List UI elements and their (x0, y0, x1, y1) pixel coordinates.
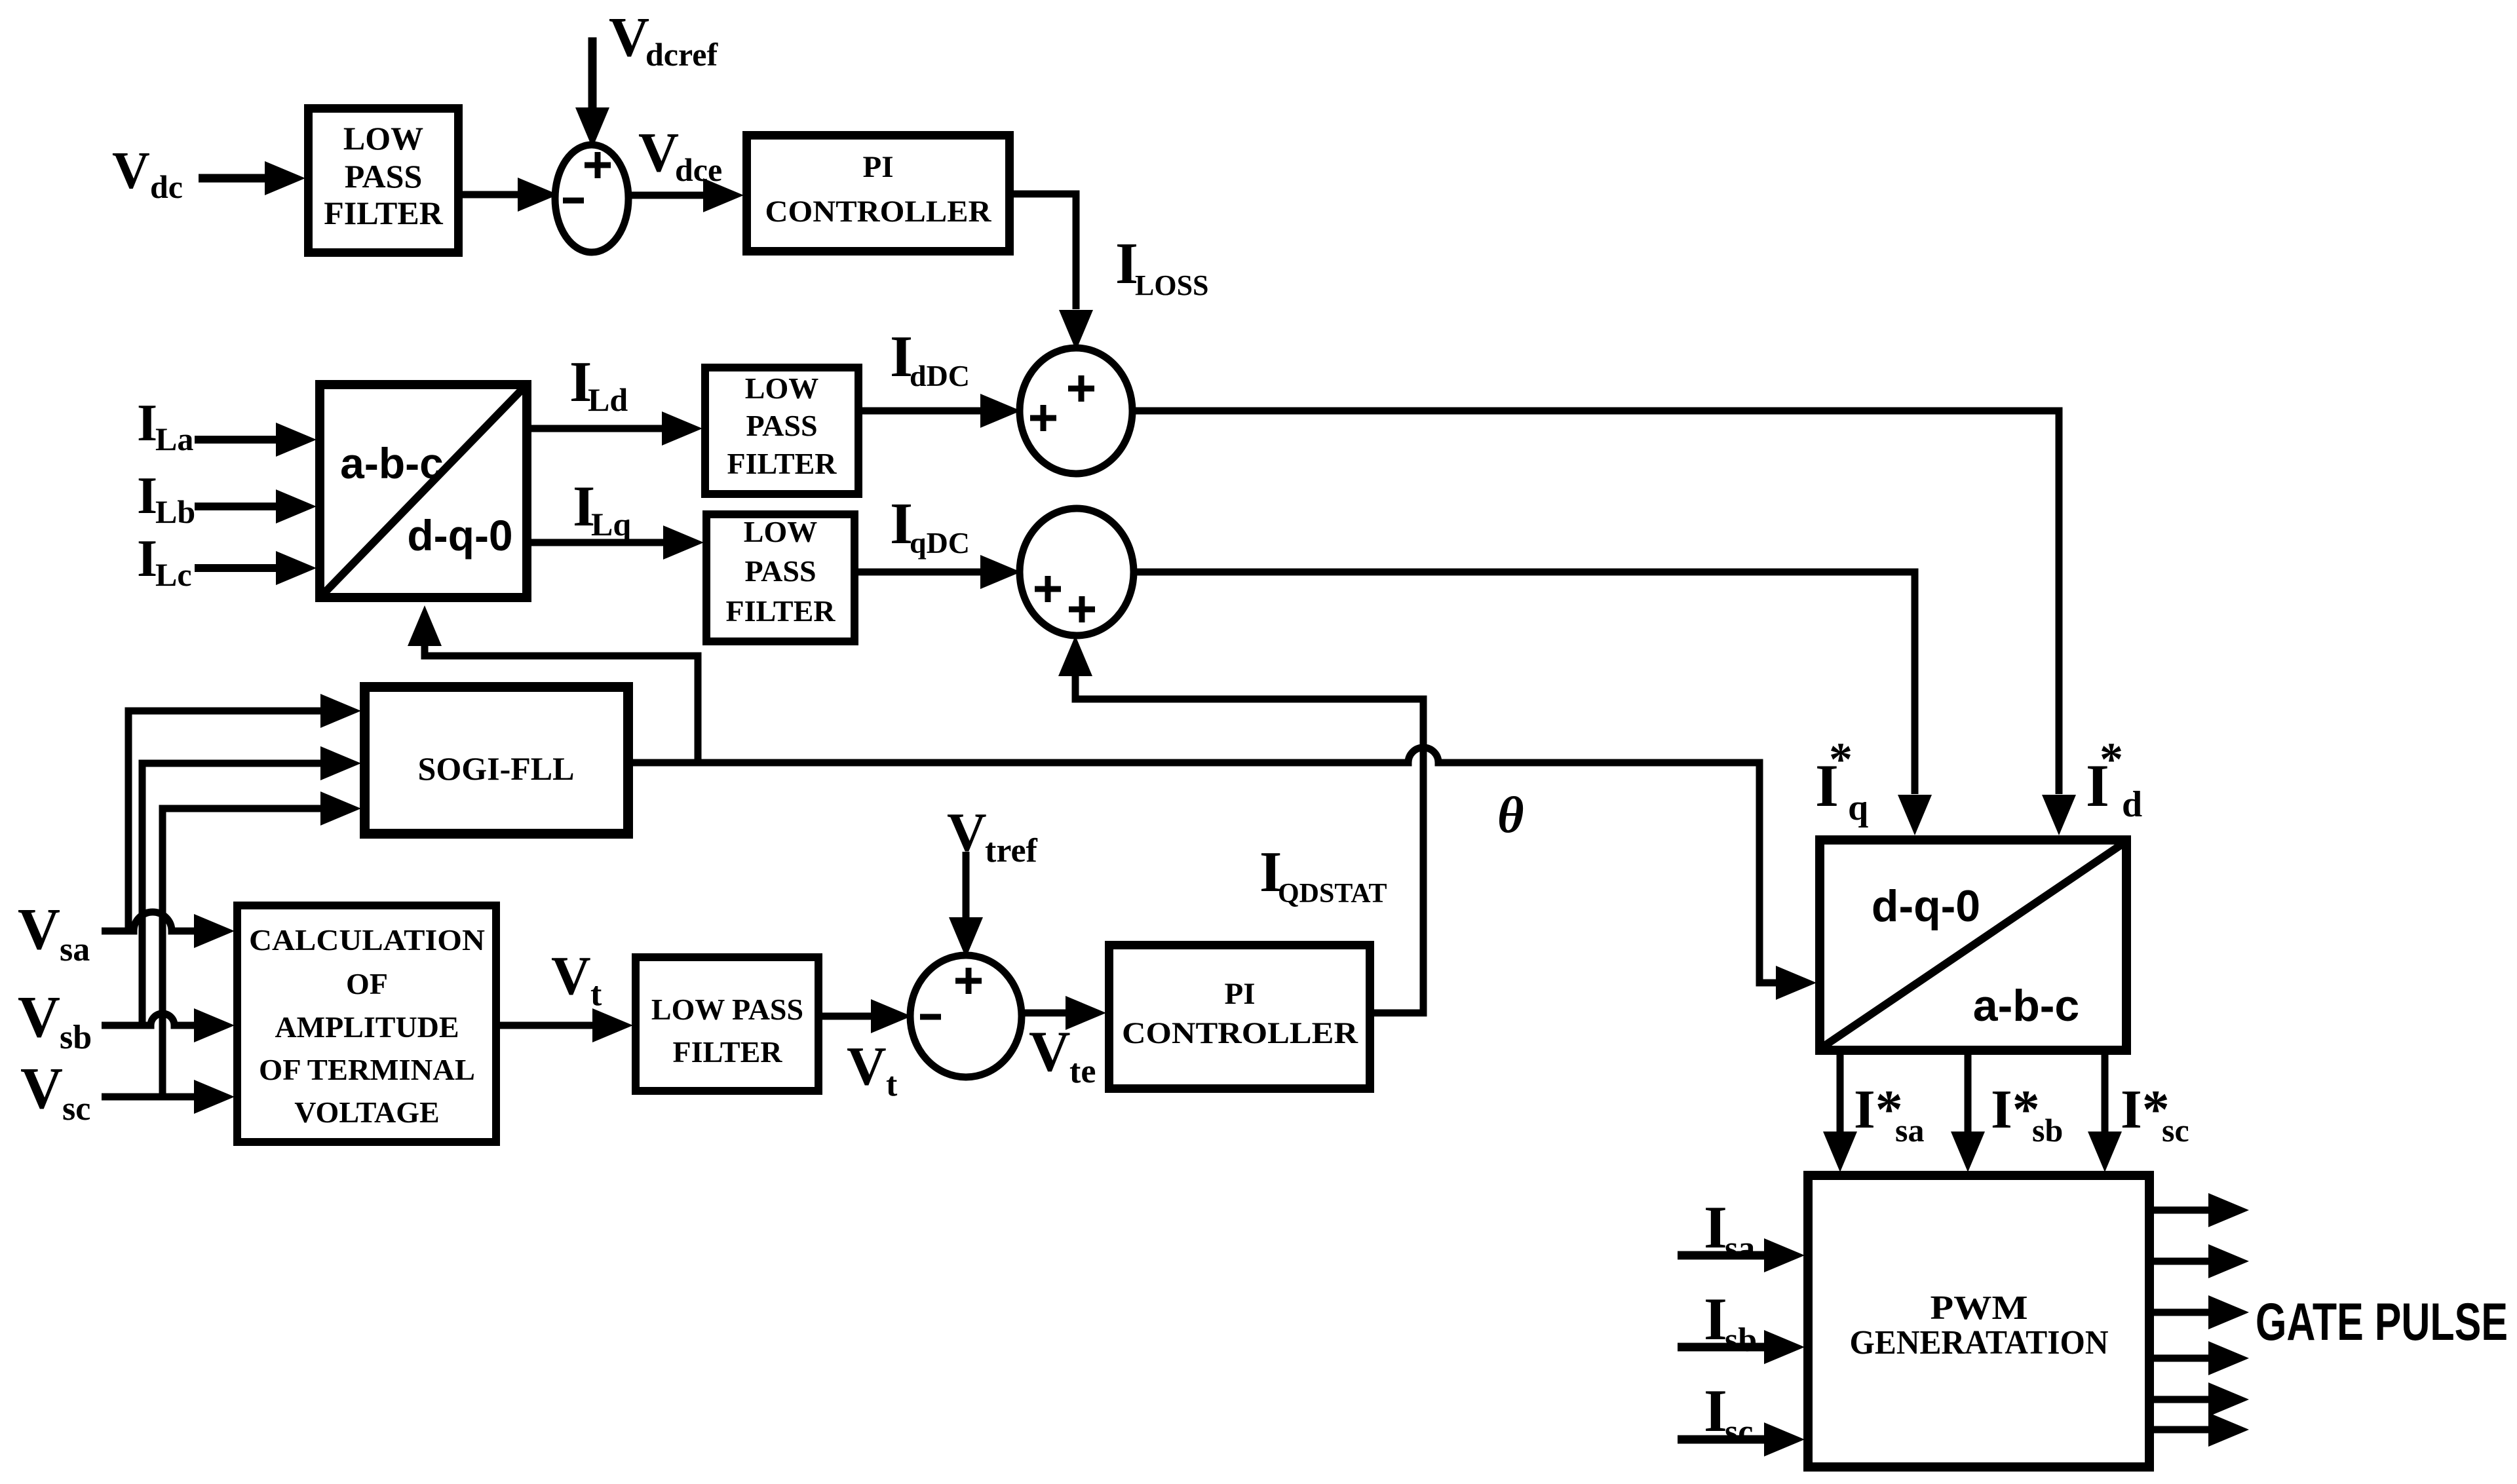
wire gate pulse output 3 (2154, 1309, 2210, 1316)
wire Vte from S3 to PI controller 2 (1022, 1010, 1067, 1017)
svg-text:OF TERMINAL: OF TERMINAL (259, 1053, 475, 1086)
block LOW PASS FILTER 2 (705, 368, 858, 494)
summer S3 (Vtref - Vt) (910, 955, 1022, 1077)
svg-text:qDC: qDC (910, 526, 970, 560)
svg-text:LOW: LOW (745, 371, 818, 405)
wire gate pulse output 6 (2154, 1426, 2210, 1434)
svg-text:sc: sc (62, 1090, 90, 1128)
block PI CONTROLLER 1 (747, 136, 1010, 252)
wire Vsb input with hop (102, 1014, 198, 1025)
svg-text:sb: sb (2032, 1112, 2063, 1149)
block LOW PASS FILTER 3 (706, 514, 855, 641)
svg-text:PWM: PWM (1931, 1289, 2028, 1327)
summer C1 (IdDC + ILOSS) (1020, 348, 1132, 474)
svg-text:dce: dce (675, 151, 722, 188)
svg-text:OF: OF (346, 967, 388, 1000)
svg-text:t: t (886, 1066, 898, 1103)
svg-text:*: * (1829, 733, 1853, 786)
block LOW PASS FILTER 4 (636, 957, 818, 1091)
svg-text:QDSTAT: QDSTAT (1278, 879, 1387, 909)
svg-text:d-q-0: d-q-0 (407, 511, 512, 560)
svg-text:I: I (1704, 1285, 1727, 1352)
wire IqDC to summer C2 (858, 569, 982, 576)
svg-text:FILTER: FILTER (725, 594, 836, 628)
svg-text:FILTER: FILTER (324, 195, 443, 231)
wire ILa input (195, 436, 281, 444)
svg-text:sa: sa (60, 931, 90, 968)
svg-text:CONTROLLER: CONTROLLER (1122, 1016, 1358, 1050)
svg-text:LOSS: LOSS (1135, 269, 1209, 301)
wire Vdcref into summer S1 (588, 37, 597, 108)
wire IdDC to summer C1 (862, 408, 982, 415)
svg-text:AMPLITUDE: AMPLITUDE (275, 1010, 459, 1044)
svg-text:V: V (551, 945, 591, 1006)
svg-text:CALCULATION: CALCULATION (249, 923, 485, 957)
wire Isb input (1678, 1343, 1767, 1352)
svg-text:V: V (847, 1036, 887, 1097)
svg-text:V: V (18, 897, 60, 962)
svg-text:dc: dc (150, 168, 183, 205)
wire theta branch up into abc-dq0 block (425, 639, 698, 763)
summer S1 (Vdcref - Vdc) (555, 145, 628, 252)
svg-text:V: V (20, 1056, 63, 1121)
svg-text:dcref: dcref (645, 36, 718, 73)
block PI CONTROLLER 2 (1109, 945, 1370, 1089)
svg-text:d-q-0: d-q-0 (1872, 881, 1980, 931)
svg-text:a-b-c: a-b-c (340, 439, 444, 487)
wire Vsa tap to SOGI input 1 (128, 711, 324, 931)
svg-text:La: La (155, 421, 193, 457)
block PWM GENERATION (1808, 1175, 2149, 1467)
svg-text:sb: sb (1725, 1322, 1757, 1359)
svg-text:CONTROLLER: CONTROLLER (765, 195, 992, 229)
wire I*sb from dq0-abc to PWM (1965, 1055, 1972, 1133)
svg-text:GENERATATION: GENERATATION (1850, 1324, 2109, 1361)
wire I*q from C2 to dq0-abc block (1134, 572, 1915, 794)
wire Isc input (1678, 1436, 1767, 1444)
svg-text:Lb: Lb (155, 493, 195, 530)
wire gate pulse output 4 (2154, 1355, 2210, 1362)
wire gate pulse output 5 (2154, 1396, 2210, 1403)
svg-text:te: te (1069, 1053, 1096, 1090)
svg-text:PASS: PASS (744, 554, 816, 588)
svg-text:q: q (1848, 788, 1868, 828)
wire PI1 output ILOSS down to summer C1 (1014, 194, 1076, 309)
svg-text:FILTER: FILTER (672, 1035, 782, 1069)
wire filtered Vt to summer S3 (822, 1013, 872, 1020)
wire Vtref into summer S3 (963, 852, 970, 917)
wire I*sc from dq0-abc to PWM (2102, 1055, 2109, 1133)
svg-text:I: I (137, 467, 157, 525)
svg-text:I: I (137, 394, 157, 452)
svg-text:LOW: LOW (343, 120, 423, 157)
wire LPF1 to summer S1 (463, 191, 519, 199)
wire gate pulse output 1 (2154, 1207, 2210, 1214)
wire ILd to LPF2 (531, 425, 663, 432)
block CALCULATION OF AMPLITUDE OF TERMINAL VOLTAGE (237, 905, 496, 1142)
svg-text:I: I (1704, 1377, 1727, 1444)
svg-text:PI: PI (1225, 977, 1256, 1011)
wire Vsa input with hop (102, 912, 198, 931)
svg-text:I: I (1704, 1194, 1727, 1261)
block SOGI-FLL (365, 687, 628, 834)
svg-text:sc: sc (1725, 1413, 1753, 1451)
wire ILc input (195, 564, 281, 572)
wire S1 to PI controller 1 (628, 192, 704, 199)
svg-text:GATE PULSE: GATE PULSE (2256, 1293, 2508, 1352)
svg-text:SOGI-FLL: SOGI-FLL (418, 750, 575, 787)
svg-text:sc: sc (2162, 1112, 2189, 1149)
svg-text:PASS: PASS (746, 409, 817, 442)
svg-text:sb: sb (60, 1019, 92, 1056)
svg-text:tref: tref (985, 832, 1038, 869)
wire ILq to LPF3 (531, 539, 664, 546)
wire ILb input (195, 503, 281, 510)
block LOW PASS FILTER 1 (309, 109, 459, 253)
wire Vdc input (199, 174, 270, 183)
svg-text:*: * (2100, 733, 2123, 786)
svg-text:I: I (137, 530, 157, 588)
wire gate pulse output 2 (2154, 1258, 2210, 1265)
summer C2 (IqDC + IQDSTAT) (1020, 508, 1134, 636)
wire I*sa from dq0-abc to PWM (1837, 1055, 1844, 1133)
svg-text:Lc: Lc (155, 556, 192, 593)
wire Vsc input (102, 1094, 198, 1101)
svg-text:sa: sa (1725, 1230, 1755, 1267)
wire Vsc tap to SOGI input 3 (163, 809, 324, 1097)
block dq0 to abc transform (1820, 840, 2126, 1050)
wire I*d from C1 to dq0-abc block (1132, 411, 2059, 794)
svg-text:Lq: Lq (591, 506, 631, 542)
svg-text:d: d (2122, 784, 2142, 825)
svg-text:V: V (609, 5, 649, 68)
svg-text:V: V (18, 985, 60, 1050)
wire Vt to LPF4 (500, 1022, 594, 1029)
block abc to dq0 transform (320, 385, 527, 598)
svg-text:sa: sa (1895, 1112, 1924, 1149)
svg-text:VOLTAGE: VOLTAGE (294, 1095, 440, 1129)
svg-text:LOW PASS: LOW PASS (651, 993, 803, 1026)
svg-text:LOW: LOW (744, 515, 817, 548)
svg-text:θ: θ (1497, 786, 1524, 843)
svg-text:V: V (1029, 1020, 1071, 1084)
svg-text:PASS: PASS (345, 158, 423, 195)
wire Isa input (1678, 1251, 1767, 1260)
svg-text:dDC: dDC (910, 359, 970, 392)
svg-text:Ld: Ld (588, 381, 628, 418)
wire theta from SOGI with hop over IQDSTAT line, to dq0-abc block (633, 748, 1777, 983)
svg-text:FILTER: FILTER (727, 447, 837, 480)
wire IQDSTAT from PI2 up into summer C2 (1075, 675, 1423, 1013)
svg-text:t: t (590, 976, 602, 1013)
wire Vsb tap to SOGI input 2 (142, 763, 324, 1025)
svg-text:PI: PI (863, 150, 894, 184)
svg-text:V: V (112, 142, 150, 200)
svg-text:V: V (638, 121, 679, 183)
svg-text:a-b-c: a-b-c (1973, 981, 2079, 1031)
